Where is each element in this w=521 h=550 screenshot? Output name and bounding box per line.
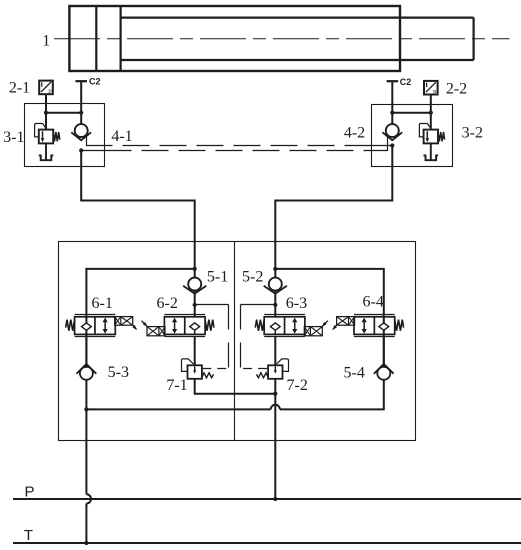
check valve 5-3 <box>77 364 97 380</box>
cylinder piston <box>96 6 120 71</box>
pilot line lower right solid <box>372 136 388 151</box>
pilot-operated check valve 4-1 <box>71 124 91 140</box>
pilot line lower left solid <box>81 150 104 152</box>
wire gauge 2-2 to rail <box>430 95 432 113</box>
pilot path 7-2 vertical dashed <box>240 305 242 369</box>
wire 6-2 to 7-1 <box>194 336 196 365</box>
pilot line lower dashed <box>105 150 372 152</box>
svg-text:C2: C2 <box>89 77 101 87</box>
wire 4-2 to manifold <box>275 146 392 269</box>
junction dot 5-1 outlet <box>193 303 197 307</box>
pressure gauge 2-1 <box>39 81 53 95</box>
wire 4-1 to manifold <box>81 151 195 269</box>
manifold divider <box>234 242 236 441</box>
wire 6-4 to 5-4 <box>383 336 385 367</box>
svg-text:7-1: 7-1 <box>166 377 187 394</box>
junction dot left rail A <box>44 111 48 115</box>
pressure gauge 2-2 <box>424 81 438 95</box>
svg-text:4-2: 4-2 <box>344 124 365 141</box>
pilot line upper dashed <box>105 145 372 147</box>
wire 7-2 outlet to P <box>274 379 276 499</box>
wire gauge 2-1 to rail <box>45 94 47 113</box>
port C2 right <box>387 81 399 125</box>
wire rail to relief 3-2 <box>430 113 432 130</box>
svg-text:5-3: 5-3 <box>108 364 129 381</box>
svg-text:6-4: 6-4 <box>363 293 384 310</box>
junction dot left rail B <box>79 111 83 115</box>
valve block enclosure right <box>372 105 453 167</box>
junction dot 7 outlet <box>273 392 277 396</box>
check valve 5-1 <box>183 278 206 294</box>
cylinder piston rod <box>121 18 474 60</box>
pilot line upper right solid <box>372 145 393 147</box>
port C2 left <box>75 81 87 125</box>
junction dot 4-1 outlet <box>79 148 83 152</box>
wire 6-1 to 5-3 <box>85 336 87 367</box>
wire hop over 7 outlet <box>271 405 280 410</box>
wire 5-1 vertical <box>194 269 196 316</box>
svg-text:2-1: 2-1 <box>9 80 30 97</box>
svg-text:5-2: 5-2 <box>242 269 263 286</box>
svg-text:3-2: 3-2 <box>462 125 483 142</box>
junction dot 5-2 outlet <box>273 303 277 307</box>
junction dot 4-2 outlet <box>390 143 394 147</box>
junction dot branch left <box>193 267 197 271</box>
tank line T <box>13 542 521 544</box>
wire 5-2 vertical <box>274 269 276 316</box>
junction dot 5-3 outlet <box>84 407 88 411</box>
wire rail to relief 3-1 <box>45 113 47 130</box>
wire hop over P line <box>86 494 91 503</box>
wire 6-3 to 7-2 <box>274 336 276 365</box>
svg-text:2-2: 2-2 <box>446 81 467 98</box>
counterbalance valve 7-2 <box>257 359 289 379</box>
svg-text:5-1: 5-1 <box>207 269 228 286</box>
svg-text:6-1: 6-1 <box>92 295 113 312</box>
directional valve 6-4 <box>332 315 403 337</box>
relief valve 3-2 <box>419 124 444 161</box>
junction dot P line <box>273 497 277 501</box>
svg-text:1: 1 <box>42 33 50 50</box>
wire return gallery left <box>86 408 270 410</box>
wire rail left <box>46 112 81 114</box>
cylinder center line <box>54 38 510 40</box>
junction dot right rail A <box>390 111 394 115</box>
pilot path 7-2 bottom dashed <box>241 368 268 370</box>
wire below hop to T <box>85 504 87 544</box>
pilot-operated check valve 4-2 <box>382 124 402 140</box>
directional valve 6-3 <box>255 315 328 337</box>
manifold enclosure <box>59 242 416 441</box>
wire branch right <box>275 269 384 366</box>
relief valve 3-1 <box>35 124 60 161</box>
check valve 5-2 <box>264 278 287 294</box>
hydraulic cylinder 1 barrel <box>69 6 400 71</box>
wire rail right <box>392 112 431 114</box>
pilot path 7-1 vertical dashed <box>228 305 230 369</box>
valve block enclosure left <box>25 104 105 167</box>
svg-text:7-2: 7-2 <box>287 377 308 394</box>
wire 7-1 outlet <box>195 379 276 394</box>
supply line P <box>13 498 521 500</box>
svg-text:P: P <box>24 484 34 501</box>
pilot path 7-1 top <box>195 304 229 306</box>
wire 5-3 down to T <box>85 380 87 495</box>
directional valve 6-1 <box>66 315 138 337</box>
junction dot branch right <box>273 267 277 271</box>
svg-text:6-3: 6-3 <box>286 295 307 312</box>
junction dot right rail B <box>429 111 433 115</box>
wire branch left <box>86 269 194 366</box>
svg-text:3-1: 3-1 <box>3 129 24 146</box>
svg-text:C2: C2 <box>400 77 412 87</box>
svg-text:T: T <box>24 527 33 544</box>
svg-text:4-1: 4-1 <box>111 128 132 145</box>
svg-text:p: p <box>48 88 51 95</box>
svg-text:p: p <box>433 88 436 95</box>
check valve 5-4 <box>374 364 394 380</box>
pilot path 7-1 bottom dashed <box>202 368 228 370</box>
svg-text:6-2: 6-2 <box>157 295 178 312</box>
pilot line upper left solid <box>87 136 105 146</box>
directional valve 6-2 <box>141 315 214 337</box>
junction dot T line <box>84 541 88 545</box>
counterbalance valve 7-1 <box>182 359 214 379</box>
wire return gallery right <box>280 380 384 410</box>
pilot path 7-2 top <box>241 304 276 306</box>
svg-text:5-4: 5-4 <box>344 364 365 381</box>
